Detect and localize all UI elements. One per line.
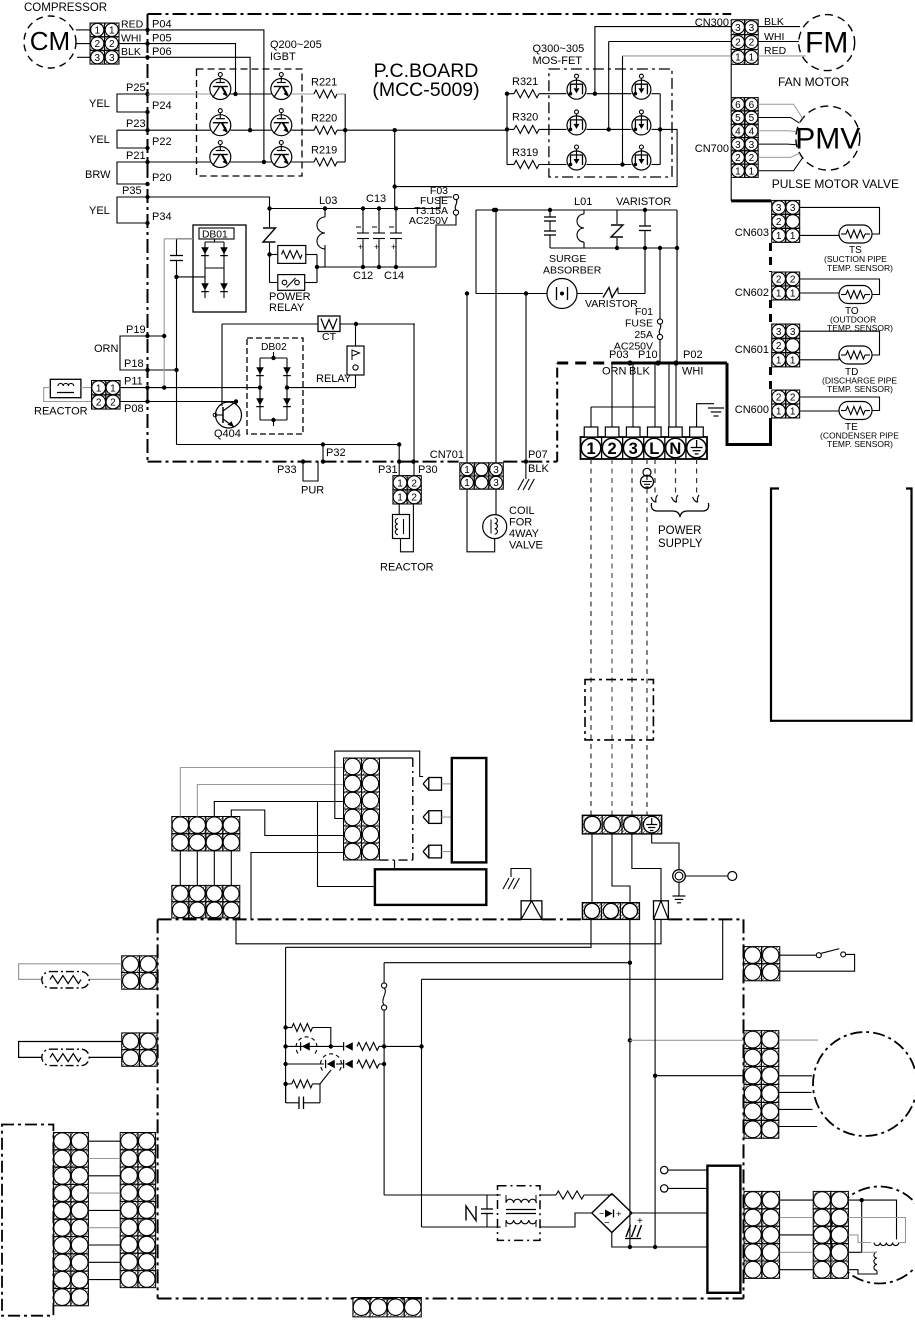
wire C [422,919,723,979]
board border right segment [556,363,558,462]
wire col3 feed [214,802,343,817]
svg-text:TEMP. SENSOR): TEMP. SENSOR) [827,384,893,394]
current transformer CT [222,323,318,325]
compressor connector B 2x5 [813,1191,831,1208]
svg-text:P20: P20 [152,172,172,184]
plug 1 [429,778,442,791]
MOS-FET module box Q300-305 [549,69,672,177]
svg-text:3: 3 [735,140,741,151]
pulse motor valve PMV [796,106,860,170]
YEL jumper P23-P22 [117,130,148,148]
svg-text:CM: CM [30,26,70,56]
pin P34 junction [145,221,149,225]
power relay right join [306,254,317,256]
svg-text:R319: R319 [512,147,538,159]
svg-text:PUR: PUR [301,485,324,497]
svg-text:C12: C12 [353,270,373,282]
connector CM 3x2 [90,23,105,37]
svg-text:P06: P06 [152,46,172,58]
svg-text:WHI: WHI [682,366,703,378]
IGBT module box Q200-205 [197,69,303,176]
svg-text:2: 2 [608,440,617,458]
wire P11 row [148,387,261,389]
right connector 2x9 [120,1133,138,1150]
sensor TO [839,286,872,304]
terminal stub boxes [584,427,598,437]
heater 1 connector [122,956,140,973]
svg-text:BLK: BLK [629,366,650,378]
capacitor bottom [486,1195,488,1209]
wires between 4x2 grids [179,851,181,885]
svg-text:3: 3 [749,23,755,34]
strip4 to strip3 wires [591,834,593,903]
svg-text:R221: R221 [311,77,337,89]
thick bus bottom loop [727,363,771,445]
wire fan feed 1 [629,919,631,1247]
wire reactor connector to board [120,387,147,389]
svg-text:1: 1 [776,231,782,242]
MOSFET Q304 left [567,151,586,170]
sensor TD wires [800,331,880,355]
external unit box dashed [2,1125,53,1316]
wire MOSFET outputs join [651,93,660,95]
svg-text:3: 3 [776,203,782,214]
MOSFET Q300 left [567,80,586,99]
terminal block 1 2 3 L N earth [581,437,708,459]
svg-text:P23: P23 [126,118,146,130]
cap by varistor [644,210,646,226]
wire IGBT row1 mid [230,93,271,95]
svg-text:5: 5 [735,113,741,124]
wire CM to connector [76,29,90,31]
relay box extension [380,757,413,759]
svg-text:2: 2 [96,398,102,409]
svg-text:WHI: WHI [121,32,141,44]
svg-text:REACTOR: REACTOR [380,562,434,574]
wire R32x left join [507,93,514,95]
svg-text:6: 6 [735,100,741,111]
earth ball [646,459,648,468]
IGBT Q200 left [210,79,231,100]
svg-text:P18: P18 [124,358,144,370]
AC bus thick [622,362,727,365]
board border top [148,13,732,15]
terminal strip 3 [582,903,639,920]
svg-text:YEL: YEL [89,205,110,217]
svg-text:25A: 25A [634,329,653,341]
svg-text:P04: P04 [152,19,172,31]
varistor Z node [267,206,271,210]
diode bridge [592,1194,632,1233]
resistor R319 [514,161,539,169]
sensor TE wires [800,397,880,411]
svg-text:CN602: CN602 [735,287,769,299]
bottom bus left section [325,266,436,268]
DB01 diodes [204,242,206,298]
wire varistor up to bus [644,248,646,294]
svg-text:Q404: Q404 [214,428,241,440]
opto transistor row [286,1063,324,1065]
fan motor connector 2x6 [744,1031,761,1049]
bottom bus right [550,247,677,249]
svg-text:F01: F01 [635,306,653,318]
wire CT branch down [221,324,223,406]
varistor symbol [603,288,618,298]
compressor motor CM [24,16,76,68]
svg-text:1: 1 [790,289,796,300]
svg-text:(MCC-5009): (MCC-5009) [372,79,479,101]
terminal strip 4 [582,815,661,834]
DC bus wire [345,129,507,131]
svg-text:+: + [391,242,396,252]
4way valve loop [495,489,497,514]
bottom connector 1x4 [353,1298,370,1317]
wire P04 feed [148,30,264,162]
wire CN300 to FM [758,26,800,28]
svg-text:P31: P31 [378,464,398,476]
wire P07 drop [525,294,527,462]
wire col2 feed [197,785,343,817]
svg-text:2: 2 [110,398,116,409]
sensor TE [839,402,872,420]
svg-text:2: 2 [109,39,115,50]
YEL jumper P25-P24 [117,94,148,112]
opto cluster left rail [285,947,287,1103]
svg-text:1: 1 [776,355,782,366]
svg-text:P08: P08 [124,403,144,415]
svg-text:R220: R220 [311,113,337,125]
wire IGBT row3 out [291,161,314,163]
svg-text:3: 3 [109,53,115,64]
wire MOSFET rows [539,93,567,95]
svg-text:FM: FM [805,27,848,60]
wire N line down [676,210,678,248]
IGBT Q202 left [210,115,231,136]
wire R outputs join [337,93,345,95]
wire CN701 pin3 feed [495,210,497,463]
svg-text:ORN: ORN [602,366,627,378]
cluster resistor row1 [292,1024,313,1032]
svg-text:FAN MOTOR: FAN MOTOR [778,75,849,89]
svg-text:YEL: YEL [89,98,110,110]
heater 1 element [42,972,89,988]
wire CT to P30 [413,324,415,476]
reactor coil box [393,515,410,539]
svg-text:1: 1 [464,478,470,489]
sensor TO wires [800,279,880,295]
module input terminals [661,1166,668,1173]
DB01 cap branch [177,238,194,240]
wire CN300 to CN700 [730,64,732,97]
MOSFET Q302 left [567,116,586,135]
equipment box right [771,489,912,721]
svg-text:1: 1 [790,231,796,242]
svg-text:5: 5 [749,113,755,124]
wire CN300-3 feed [595,27,731,94]
svg-text:1: 1 [397,493,403,504]
svg-text:N: N [669,440,681,458]
earth terminal double circle [673,870,686,883]
MOSFET Q301 right [632,80,651,99]
wire connector to board P04-P06 [119,29,148,31]
svg-text:6: 6 [749,100,755,111]
svg-text:POWER: POWER [658,525,701,537]
terminal feeds [611,363,613,427]
compressor wires [848,1200,896,1239]
transistor Q404 [216,402,242,428]
wire bus down to caps [394,130,396,208]
pin P20 junction [145,182,149,186]
compressor motor circle [831,1187,915,1284]
svg-text:2: 2 [411,493,417,504]
svg-text:2: 2 [790,275,796,286]
svg-text:1: 1 [735,166,741,177]
wire P35 to filter [148,197,270,209]
heater 1 loop [19,964,122,980]
indoor unit border top [158,918,521,920]
wire P18 stub [148,369,177,371]
svg-text:REACTOR: REACTOR [34,406,88,418]
earth link wire [652,834,679,870]
svg-text:FUSE: FUSE [625,318,653,330]
svg-text:SURGE: SURGE [549,253,586,265]
svg-text:CN603: CN603 [735,227,769,239]
resistor R220 [314,126,337,134]
svg-text:2: 2 [749,38,755,49]
surge absorber circuit [475,210,477,294]
bridge input 2 [540,1213,592,1227]
svg-text:2: 2 [411,478,417,489]
resistor to bridge [540,1194,556,1196]
svg-text:2: 2 [776,341,782,352]
svg-text:2: 2 [776,393,782,404]
lower connector 4x2 [172,885,189,901]
wire strip1 to opto cluster [286,919,591,947]
wire row4 loop [335,751,423,818]
opto diode 1 [286,1045,331,1047]
ORN jumper P19-P18 [120,336,148,370]
wire IGBT row2 out [291,129,314,131]
caps by L01 [549,210,551,217]
svg-text:R219: R219 [311,145,337,157]
wire IGBT row2 mid [230,129,271,131]
board border bottom [148,461,459,463]
svg-text:1: 1 [94,25,100,36]
svg-text:2: 2 [790,393,796,404]
svg-text:C13: C13 [366,193,386,205]
svg-text:1: 1 [96,383,102,394]
connector 2x6 middle [344,758,362,775]
svg-text:3: 3 [790,203,796,214]
svg-text:PULSE MOTOR VALVE: PULSE MOTOR VALVE [772,177,899,191]
thick dashes 601-600 [769,367,772,390]
svg-text:L: L [649,440,659,458]
svg-text:+: + [358,242,363,252]
svg-text:DB01: DB01 [202,229,228,240]
fan motor wires [779,1039,818,1041]
svg-text:1: 1 [397,478,403,489]
pin P35 junction [145,195,149,199]
svg-text:3: 3 [493,465,499,476]
svg-text:DB02: DB02 [261,342,287,353]
thick dashes 603-602 [769,243,772,272]
svg-text:P10: P10 [638,349,658,361]
top bus right [476,209,677,211]
IGBT Q205 right [271,147,292,168]
strip 4 earth glyph [651,818,653,824]
earth symbol below [678,882,680,895]
wire B strip3 to switch [384,962,630,964]
wire IGBT row1 out [291,93,314,95]
svg-text:TEMP. SENSOR): TEMP. SENSOR) [827,439,893,449]
power relay contact [269,255,271,283]
fan motor circle [813,1032,915,1136]
crimp plug 2 [654,901,669,920]
wire DB02 to relay [287,387,356,389]
svg-text:SUPPLY: SUPPLY [658,538,703,550]
svg-text:1: 1 [464,465,470,476]
svg-text:VARISTOR: VARISTOR [616,196,671,208]
wire P23 to IGBT [148,129,211,131]
svg-text:RED: RED [764,45,787,57]
svg-text:1: 1 [735,53,741,64]
indoor unit border bottom [158,1298,744,1300]
svg-text:3: 3 [749,140,755,151]
connector P31 P30 2x2 [393,476,407,490]
sensor TS wires [800,207,880,234]
resistor R320 [514,125,539,133]
svg-text:CN300: CN300 [695,17,729,29]
resistor R219 [314,158,337,166]
wire col1 feed [180,768,343,817]
svg-text:CN701: CN701 [430,449,464,461]
svg-text:+: + [374,242,379,252]
compressor windings [874,1243,899,1246]
svg-text:BLK: BLK [528,463,549,475]
svg-text:4WAY: 4WAY [509,528,540,540]
IGBT Q203 right [271,115,292,136]
svg-text:3: 3 [735,23,741,34]
MOSFET Q303 right [632,116,651,135]
wire MOSFET to filter [396,129,677,186]
wire P31 down [398,445,400,476]
svg-text:TEMP. SENSOR): TEMP. SENSOR) [827,263,893,273]
earth wire to terminal [697,404,714,427]
svg-text:P21: P21 [126,150,146,162]
wire P06 feed [148,57,251,130]
cluster capacitor [285,1084,287,1103]
power module box [707,1166,740,1293]
switch [383,963,385,983]
BRW jumper P21-P20 [117,162,148,184]
rectifier DB01 box [193,225,246,312]
overload switch [780,954,817,956]
wire P19 riser [163,239,165,388]
svg-text:CN700: CN700 [695,143,729,155]
svg-text:FOR: FOR [509,517,532,529]
svg-text:1: 1 [776,407,782,418]
svg-text:2: 2 [735,38,741,49]
pin P08 junction [145,399,149,403]
wire P21 to IGBT [148,161,211,163]
IGBT Q201 right [271,79,292,100]
svg-text:CN601: CN601 [735,344,769,356]
svg-text:VALVE: VALVE [509,540,543,552]
svg-text:2: 2 [749,153,755,164]
svg-text:L03: L03 [319,195,337,207]
svg-text:RELAY: RELAY [269,302,305,314]
L N earth supply dashes [654,459,656,496]
wire CN700 to sensor bus [730,178,732,201]
pin P22 junction [145,146,149,150]
wire CN300-2 feed [608,42,610,130]
svg-text:2: 2 [94,39,100,50]
svg-text:1: 1 [749,166,755,177]
svg-text:IGBT: IGBT [270,51,296,63]
AC bus thick dashed [557,362,622,365]
svg-text:VARISTOR: VARISTOR [585,298,638,310]
power relay coil resistor [267,252,271,256]
rectifier DB02 box [247,338,303,434]
wire P25 to IGBT [148,93,211,95]
svg-text:3: 3 [790,327,796,338]
svg-text:Q300~305: Q300~305 [533,43,585,55]
svg-text:CN600: CN600 [735,404,769,416]
sensor TD [839,346,872,364]
controller box tall [452,758,487,862]
svg-text:R320: R320 [512,112,538,124]
transformer [498,1186,541,1241]
wire CN701 pin1 feed [466,294,468,463]
reactor left [50,379,81,397]
connector reactor 2x2 [92,381,106,395]
svg-text:4: 4 [735,126,741,137]
upper connector 4x2 [172,817,189,834]
svg-text:CT: CT [322,331,337,343]
svg-text:3: 3 [94,53,100,64]
pin P18 junction [145,368,149,372]
heater 2 loop [19,1042,122,1058]
indoor unit border right [743,919,745,1298]
junction box dash-dot [585,680,653,740]
pin P19 junction [145,334,149,338]
wire A lower-grid to crimp plug [236,918,661,944]
thick dashes 602-601 [769,300,772,324]
svg-text:1: 1 [790,355,796,366]
svg-text:PMV: PMV [795,123,860,156]
wire relay to DB02 row [355,375,357,388]
svg-text:P30: P30 [418,464,438,476]
svg-text:MOS-FET: MOS-FET [533,55,583,67]
relay RY [355,324,357,346]
connector overload switch 2x2 [743,947,761,964]
indoor unit border left [157,919,159,1298]
crimp plug 1 [521,901,542,920]
svg-text:2: 2 [776,217,782,228]
svg-text:C14: C14 [384,270,404,282]
POWER SUPPLY brace [651,503,708,517]
svg-text:P02: P02 [683,349,703,361]
svg-text:4: 4 [749,126,755,137]
bridge wires to module [632,1212,707,1214]
svg-text:1: 1 [586,440,595,458]
svg-text:P35: P35 [122,185,142,197]
wire col4 feed [231,810,343,836]
heater 2 element [42,1049,89,1065]
wire cap line down to P31 loop [176,277,178,445]
svg-text:1: 1 [110,383,116,394]
svg-text:ABSORBER: ABSORBER [543,265,602,277]
